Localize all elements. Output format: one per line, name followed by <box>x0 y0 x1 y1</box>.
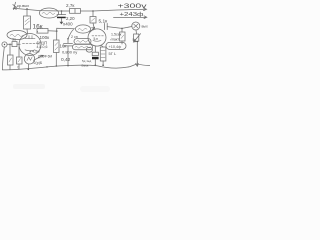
wire measurement arrow +243 <box>114 16 147 19</box>
resistor R7 5.1k <box>90 17 96 24</box>
svg-text:√пакт: √пакт <box>110 37 120 41</box>
wire C5 to output <box>107 27 132 29</box>
resistor R4 100k <box>37 29 48 34</box>
wire R7 to top rail <box>92 11 94 17</box>
wire arrow from Q1 <box>34 55 44 60</box>
capacitor C5 coupling <box>105 23 108 29</box>
label bubble note2 <box>73 44 93 49</box>
node junction output <box>121 28 123 30</box>
svg-text:5.п: 5.п <box>94 37 99 41</box>
svg-text:16к: 16к <box>60 43 67 48</box>
wire R1 to top rail <box>26 9 28 16</box>
input jack J1 <box>2 42 7 47</box>
svg-text:+10,4ф: +10,4ф <box>109 45 122 49</box>
wire RP1 to rail <box>136 41 138 63</box>
node junction C6 rail <box>95 65 97 67</box>
wire C2 to tube V1 grid <box>17 43 20 45</box>
svg-text:+300v: +300v <box>118 3 148 10</box>
svg-text:0,42: 0,42 <box>61 57 71 63</box>
label bubble +10.4 <box>106 38 136 49</box>
capacitor C7 oval <box>75 25 90 33</box>
node junction Q1 rail <box>28 69 30 71</box>
node junction R5 rail <box>56 65 58 67</box>
svg-text:5,1к: 5,1к <box>99 19 109 25</box>
svg-text:вых: вых <box>142 25 148 29</box>
resistor R2 <box>8 55 14 65</box>
node junction C3 top <box>67 38 69 40</box>
capacitor C1 oval <box>7 30 27 39</box>
node IN mark <box>13 2 17 9</box>
svg-text:2(р)Б: 2(р)Б <box>34 61 43 65</box>
node B junction <box>93 27 95 29</box>
wire C3 to rail <box>67 46 69 66</box>
svg-text:31: 31 <box>12 38 16 42</box>
output jack J2 <box>132 22 140 30</box>
wire node A down to R5 <box>56 31 58 40</box>
wire J1 down left edge <box>2 47 4 70</box>
capacitor C9 small oval <box>86 47 92 52</box>
wire R7 to node B <box>93 23 94 27</box>
tube V2 <box>88 29 106 46</box>
svg-text:5v: 5v <box>133 38 137 42</box>
capacitor C8 oval on top rail <box>39 8 58 18</box>
transistor Q1 blob <box>24 54 34 64</box>
svg-text:5Г L: 5Г L <box>109 51 118 56</box>
node junction R1 top <box>26 8 28 10</box>
resistor R3 <box>17 57 23 64</box>
wire R3 to input line <box>18 47 20 57</box>
wire R3 to rail <box>18 64 20 69</box>
resistor R6 2.7k <box>70 9 81 14</box>
svg-text:кр.вых: кр.вых <box>17 3 29 8</box>
svg-text:100к: 100к <box>40 35 51 40</box>
svg-text:2 сп: 2 сп <box>71 35 78 39</box>
wire R5 to rail <box>55 53 57 67</box>
wire Q1 to rail <box>27 64 29 69</box>
resistor R5 <box>54 40 60 53</box>
resistor R1 16k <box>24 16 31 29</box>
wire top main rail <box>14 8 146 11</box>
capacitor C6 electrolytic <box>92 46 99 65</box>
wire J1 to C2 <box>7 43 12 45</box>
label bubble note1 <box>74 39 91 44</box>
node junction rail left <box>46 66 47 67</box>
wire R2 to input line <box>9 44 11 55</box>
wire C4 to top rail <box>61 11 63 14</box>
faint smudge left <box>13 84 45 89</box>
tube V1 <box>19 34 41 56</box>
wire ground rail <box>2 64 149 70</box>
wire R1 to tube V1 <box>26 29 29 34</box>
wire C3 top link <box>68 30 74 39</box>
node junction R9 rail <box>102 64 104 66</box>
capacitor C2 box <box>12 42 17 47</box>
wire node A up and right to C7 <box>57 28 75 31</box>
resistor R8 <box>120 32 126 41</box>
svg-text:1,5сек: 1,5сек <box>111 32 122 36</box>
node junction R7 top <box>92 10 94 12</box>
node junction C3 rail <box>67 65 69 67</box>
svg-text:2,20: 2,20 <box>66 16 75 21</box>
node junction rail right tick <box>136 62 139 67</box>
node junction C4 top <box>61 10 63 12</box>
node junction R2 top <box>9 44 10 45</box>
capacitor C4 2.2x400 <box>57 15 66 25</box>
svg-text:16к: 16к <box>33 24 43 31</box>
svg-text:+243ф: +243ф <box>120 12 144 18</box>
svg-text:х400: х400 <box>63 22 73 27</box>
svg-text:ДПЗФ 6М: ДПЗФ 6М <box>38 55 52 59</box>
faint smudge right <box>80 86 110 92</box>
svg-text:2,7к: 2,7к <box>66 3 75 8</box>
wire arrowhead +300v <box>144 8 147 11</box>
wire R8 top <box>121 28 123 32</box>
wire R8 bottom <box>121 41 123 44</box>
wire R2 to rail <box>9 65 11 70</box>
svg-text:0,800 пу: 0,800 пу <box>62 49 77 54</box>
node A junction <box>56 30 58 32</box>
potentiometer RP1 <box>134 30 141 42</box>
svg-text:t: t <box>18 66 19 70</box>
capacitor C3 <box>64 39 73 46</box>
wire node B to tube V2 <box>93 28 96 30</box>
svg-text:8мка: 8мка <box>82 63 89 67</box>
resistor R9 <box>100 46 106 66</box>
svg-text:+4,5в: +4,5в <box>30 48 40 53</box>
wire C7 arrow to node B <box>90 28 94 32</box>
wire R4 to node A <box>48 30 57 32</box>
node junction RP1 bottom <box>137 41 138 42</box>
